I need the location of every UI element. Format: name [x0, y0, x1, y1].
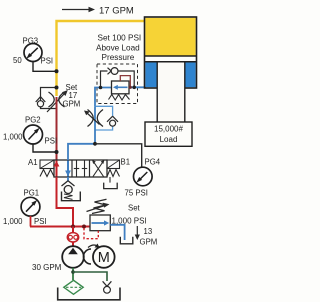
svg-text:30 GPM: 30 GPM	[32, 263, 62, 272]
piston rod	[157, 62, 185, 122]
svg-text:M: M	[98, 250, 110, 266]
label Set 17 GPM	[63, 83, 81, 109]
pilot line counterbalance	[120, 76, 130, 88]
cylinder C1	[145, 17, 197, 88]
wire: B1 line to PG4	[95, 144, 142, 168]
node pump junction	[71, 225, 75, 229]
wire: relief to tank blue	[110, 225, 124, 240]
svg-text:Load: Load	[160, 135, 178, 144]
svg-text:75 PSI: 75 PSI	[125, 189, 148, 198]
tank symbol under check	[62, 192, 81, 201]
svg-text:50: 50	[13, 56, 22, 65]
node pilot tap	[129, 86, 132, 89]
svg-text:PSI: PSI	[41, 57, 54, 66]
svg-text:PG4: PG4	[145, 158, 161, 167]
flow control FC1 Set 17 GPM	[36, 88, 68, 113]
pump P1	[62, 246, 84, 268]
svg-text:Pressure: Pressure	[102, 53, 135, 62]
counterbalance assembly boundary dashed	[97, 64, 138, 104]
node check to rod line	[132, 86, 136, 90]
motor M1	[93, 246, 115, 268]
svg-text:B1: B1	[121, 158, 131, 167]
solenoid left	[40, 160, 54, 169]
valve center position blocked ports	[74, 161, 87, 177]
node bypass tap	[99, 86, 103, 90]
strainer	[64, 280, 83, 294]
wire: suction green	[72, 268, 74, 280]
flow control FC2	[84, 106, 118, 144]
svg-text:Set 100 PSI: Set 100 PSI	[98, 34, 142, 43]
spring right	[107, 170, 120, 177]
svg-text:13: 13	[144, 227, 153, 236]
wire: pump header red	[30, 226, 90, 228]
label Set 1,000 PSI	[112, 204, 147, 226]
wire: B1 line blue to valve	[68, 144, 95, 160]
wire: T line valve to check	[67, 177, 69, 181]
svg-text:15,000#: 15,000#	[154, 125, 183, 134]
spring counterbalance	[109, 95, 130, 101]
node pilot tap	[82, 225, 86, 229]
label Set 100 PSI Above Load Pressure	[96, 34, 141, 63]
wire: P line valve to pump	[57, 177, 74, 227]
check valve counterbalance bypass	[101, 68, 135, 88]
svg-text:GPM: GPM	[63, 100, 81, 109]
svg-text:1,000: 1,000	[3, 217, 23, 226]
node FC1 bypass tap	[55, 86, 59, 90]
svg-text:PSI: PSI	[45, 137, 58, 146]
svg-text:PSI: PSI	[34, 217, 47, 226]
solenoid right	[107, 160, 120, 169]
flow meter	[67, 227, 78, 247]
relief valve RV1	[87, 199, 111, 231]
wire: A1 line FC1 to valve	[56, 97, 58, 160]
wire: case drain branch	[73, 272, 107, 281]
node PG2 tap	[55, 150, 59, 154]
tank main	[58, 288, 120, 300]
pilot line relief dashed	[84, 228, 98, 239]
svg-text:GPM: GPM	[140, 238, 158, 247]
valve envelope 1 flow path B to T (blue down)	[65, 161, 71, 177]
relief flow arrow 13 GPM	[135, 226, 158, 247]
svg-text:1,000: 1,000	[3, 133, 23, 142]
spring left	[40, 170, 54, 177]
counterbalance valve CB1	[112, 81, 130, 94]
check valve tank backpressure	[62, 181, 75, 200]
valve envelope 1 flow path P to A (red up)	[54, 161, 60, 177]
svg-text:17 GPM: 17 GPM	[99, 6, 134, 17]
svg-text:PG2: PG2	[25, 116, 41, 125]
svg-text:Set: Set	[128, 204, 141, 213]
directional valve DV1 body	[54, 160, 107, 177]
gauge PG3	[13, 37, 55, 72]
node PG3 tap	[55, 69, 59, 73]
tank symbol relief	[120, 237, 133, 244]
load box	[145, 122, 192, 146]
gauge PG1	[3, 197, 47, 226]
node suction branch	[71, 270, 75, 274]
check valve return	[103, 281, 112, 293]
gauge PG4	[125, 167, 153, 197]
wire: yellow supply line to cylinder cap	[57, 21, 145, 96]
svg-text:1,000 PSI: 1,000 PSI	[112, 217, 147, 226]
valve crossed position	[92, 160, 105, 177]
svg-text:Above Load: Above Load	[96, 43, 140, 52]
wire: top flow arrow 17 GPM	[62, 7, 95, 13]
node B1 junction	[93, 142, 97, 146]
shaft coupling	[84, 244, 100, 265]
tank symbol valve drain	[104, 177, 118, 189]
gauge PG2	[3, 116, 57, 153]
svg-text:PG1: PG1	[24, 189, 40, 198]
svg-text:A1: A1	[28, 158, 38, 167]
wire: rod side blue line	[95, 87, 146, 106]
